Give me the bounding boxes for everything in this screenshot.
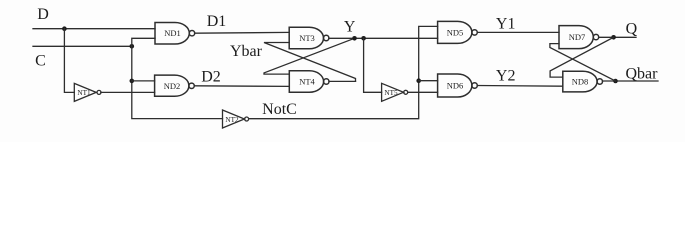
nand NT4 — [289, 71, 329, 93]
wire NT1 output to ND2 — [101, 91, 155, 93]
junction C to ND2 — [130, 79, 135, 84]
junction Qbar — [613, 79, 618, 84]
junction C tee — [130, 44, 135, 49]
svg-text:ND6: ND6 — [447, 81, 464, 91]
svg-text:D: D — [37, 6, 49, 23]
svg-text:Y: Y — [344, 19, 356, 36]
wire Y1 (ND5 out to ND7) — [477, 31, 559, 33]
svg-text:D1: D1 — [207, 13, 227, 30]
svg-text:Qbar: Qbar — [626, 65, 659, 82]
inverter NT1 — [74, 83, 101, 101]
wire Qbar cross to ND7 lower input — [550, 44, 616, 81]
svg-text:D2: D2 — [201, 69, 221, 86]
svg-text:Q: Q — [626, 21, 638, 38]
wire Y2 (ND6 out to ND8) — [477, 85, 563, 88]
wire Y (NT3 out to ND5) — [329, 37, 438, 39]
inverter NT5 — [382, 83, 408, 101]
svg-text:Y2: Y2 — [496, 68, 516, 85]
wire D1 (ND1 out to NT3) — [195, 31, 290, 34]
svg-text:Y1: Y1 — [496, 16, 516, 33]
nand ND1 — [155, 23, 195, 45]
junction Y to NT5 — [361, 36, 366, 41]
nand NT3 — [289, 27, 329, 49]
wire NT4 output stub — [329, 80, 356, 82]
nand ND8 — [563, 71, 603, 92]
svg-text:Ybar: Ybar — [230, 43, 263, 60]
junction NotC to ND6 — [416, 78, 421, 83]
svg-text:ND5: ND5 — [447, 27, 464, 37]
nand ND7 — [559, 26, 599, 49]
junction Y feedback — [352, 36, 357, 41]
svg-text:NotC: NotC — [262, 101, 297, 118]
wire Q cross to ND8 top input — [550, 37, 614, 77]
svg-text:ND2: ND2 — [164, 81, 181, 91]
nand ND2 — [155, 75, 195, 96]
wire C up to ND1 second input — [132, 38, 155, 46]
nand ND6 — [438, 74, 478, 97]
svg-text:ND7: ND7 — [569, 32, 586, 42]
svg-text:C: C — [35, 52, 46, 69]
svg-text:ND8: ND8 — [572, 77, 589, 87]
wire D down to NT1 input — [64, 29, 74, 93]
svg-text:NT1: NT1 — [77, 89, 91, 97]
svg-text:NT2: NT2 — [225, 116, 239, 124]
wire D input — [33, 28, 155, 30]
wire D2 (ND2 out to NT4) — [194, 85, 289, 88]
wire Q output — [599, 36, 636, 38]
svg-text:ND1: ND1 — [164, 28, 181, 38]
svg-text:NT3: NT3 — [299, 33, 315, 43]
wire NT5 output to ND6 lower input — [408, 91, 438, 93]
wire Y cross (Y down to NT4 upper input) — [264, 38, 355, 74]
svg-text:NT4: NT4 — [299, 77, 315, 87]
wire C input — [33, 45, 132, 47]
junction on D wire — [62, 26, 67, 31]
wire NotC rail to ND5 top input — [249, 26, 438, 118]
svg-text:NT5: NT5 — [384, 89, 398, 97]
nand ND5 — [438, 21, 478, 43]
wire NotC to ND6 top input — [419, 80, 438, 82]
wire C to ND2 top input — [132, 80, 155, 82]
junction Q — [611, 35, 616, 40]
wire Ybar cross (NT4 out up to NT3 lower input) — [264, 43, 356, 82]
wire Y down to NT5 input — [364, 38, 382, 92]
wire C down to bottom rail — [132, 46, 223, 118]
wire Qbar output — [603, 80, 659, 82]
inverter NT2 — [223, 110, 249, 128]
